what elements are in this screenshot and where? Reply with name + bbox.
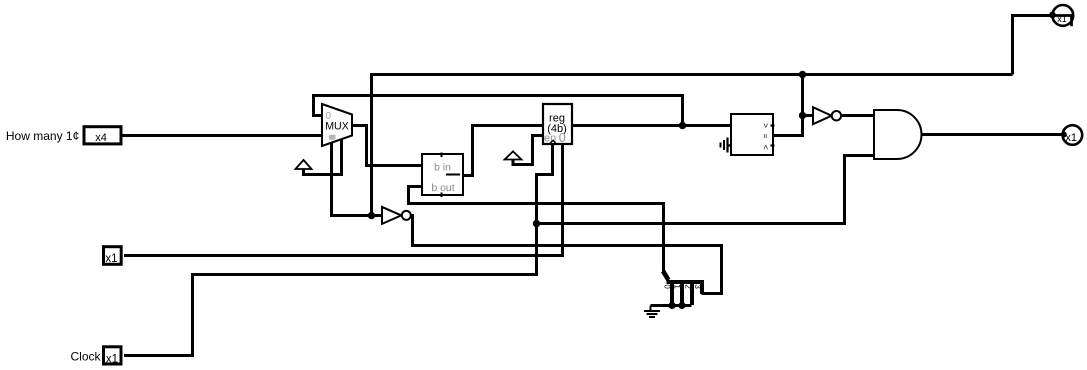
wire: to top-right output pin [1013,16,1053,75]
input pin x1 (top) [104,247,122,265]
svg-text:0: 0 [559,131,566,145]
junction node: splitter bit0 / ground bus [668,302,675,309]
wire: splitter ground bus [651,304,692,307]
multiplexer MUX1 [322,104,352,146]
svg-text:How many 1¢: How many 1¢ [6,129,79,143]
output pin x1 (right) [1061,125,1082,145]
svg-text:x4: x4 [95,132,107,144]
wire: NOT U2 output to splitter bit3 [411,216,722,294]
wire: register bottom pin down and left to input x1 [124,144,563,256]
svg-text:Clock: Clock [71,350,102,364]
power symbol V2 [505,151,522,159]
svg-text:x1: x1 [105,253,117,265]
svg-text:3: 3 [693,284,702,289]
register U4 "reg (4b)" [543,104,572,145]
svg-text:2: 2 [684,284,693,289]
wire: top run y=74 from comparator node left to x=371 then down to select node [372,75,1013,216]
svg-text:>: > [761,123,770,128]
svg-text:b in: b in [434,161,451,173]
wire: register Q to comparator A [572,124,731,127]
svg-text:x1: x1 [106,353,118,365]
wire: input x4 to MUX input1 [122,134,323,137]
junction node: splitter bit1 / ground bus [678,302,685,309]
wire: clock net from register clock pin to Clock input pin [124,144,553,356]
wire: node to NOT gate U1 input [803,114,814,117]
subcircuit U3 "b" [422,153,463,198]
svg-text:b out: b out [431,182,454,194]
wire: NOT U1 output to AND gate upper input [841,114,874,117]
wire: MUX select down to NOT gate U2 input [332,143,383,216]
svg-text:MUX: MUX [325,121,349,133]
comparator U5 [731,114,775,155]
junction node: register Q / feedback loop [679,122,686,129]
ground GND1 below splitter [644,306,660,318]
wire: AND gate output to output pin x1 [922,133,1064,136]
power symbol V1 [296,160,312,169]
svg-text:1: 1 [673,284,682,289]
wire: power V2 to register enable [513,136,543,165]
junction node: clock branch [533,220,540,227]
svg-text:0: 0 [663,284,672,289]
junction node: comparator out / top run [799,71,806,78]
splitter SP1 [663,271,704,305]
svg-text:x1: x1 [1065,132,1077,144]
svg-text:=: = [760,134,769,139]
wire: comparator equal output up to top run [772,75,803,136]
wire: power V1 to MUX enable [304,139,342,175]
wire: register feedback to MUX input0 (top run y=95) [314,96,683,126]
svg-text:<: < [761,145,770,150]
junction node: comparator out / NOT U1 input [799,112,806,119]
NOT gate U1 [813,107,841,124]
wire: b-out down and right to splitter main [409,187,664,273]
NOT gate U2 [382,207,411,224]
input pin x1 "Clock" [71,347,122,366]
AND gate U6 [874,110,922,159]
output pin x1 (top right) [1049,5,1073,26]
splitter SP1 bit labels [663,284,703,289]
ground GND2 at comparator B input [721,138,732,153]
wire: MUX output to subcircuit b-in [352,126,422,166]
input pin x4 "How many 1 cent" [6,127,121,144]
junction node: select / top-run [368,212,375,219]
wire: clock branch to AND gate lower input [537,156,875,224]
wire: subcircuit right pin up to register D input [463,126,543,176]
